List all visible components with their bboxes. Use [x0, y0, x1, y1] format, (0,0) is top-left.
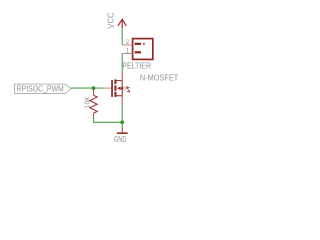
svg-text:1: 1: [126, 47, 130, 54]
net label flag RPISOC_PWM: [15, 84, 72, 94]
wire RPISOC_PWM to MOSFET gate: [71, 87, 103, 89]
svg-text:10K: 10K: [85, 96, 92, 108]
pin 1: [122, 53, 132, 55]
junction at GND rail: [120, 120, 124, 124]
wire VCC to PELTIER pin 2: [121, 28, 123, 45]
wire MOSFET source down: [121, 105, 123, 123]
resistor R1: [90, 88, 97, 116]
svg-text:N-MOSFET: N-MOSFET: [140, 73, 179, 82]
svg-text:RPISOC_PWM: RPISOC_PWM: [17, 84, 64, 93]
connector J1 PELTIER box: [133, 39, 153, 60]
svg-text:VCC: VCC: [107, 12, 116, 29]
svg-text:GND: GND: [114, 135, 127, 144]
pin 2: [122, 44, 132, 46]
svg-text:PELTIER: PELTIER: [122, 62, 151, 71]
wire junction to ground symbol: [121, 122, 123, 127]
ground: [117, 128, 128, 134]
transistor Q1 N-MOSFET: [103, 72, 129, 105]
wire PELTIER pin 1 to MOSFET drain: [121, 54, 123, 73]
supply symbol VCC: [118, 19, 126, 28]
junction at resistor top: [92, 86, 96, 90]
wire resistor bottom to GND rail: [94, 116, 123, 122]
svg-text:2: 2: [126, 39, 130, 46]
